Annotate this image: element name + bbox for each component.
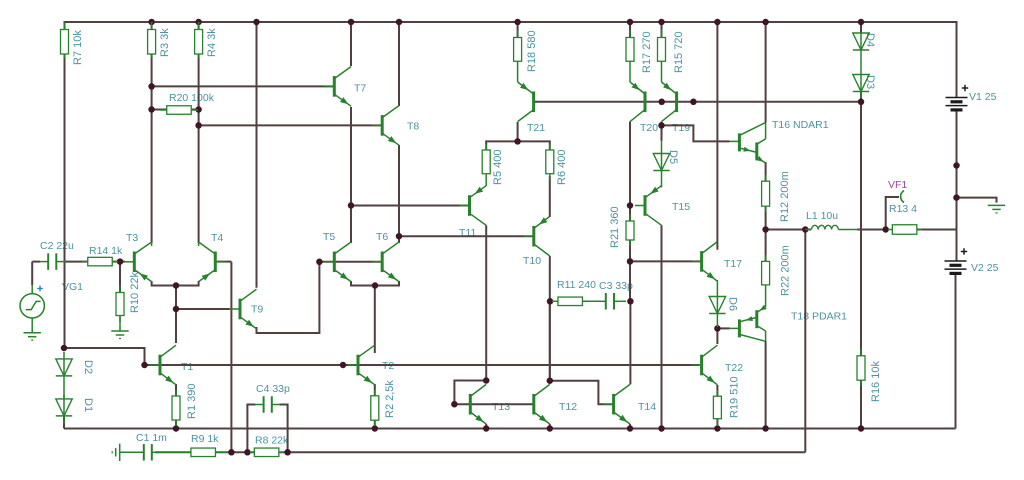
svg-text:T3: T3 <box>126 232 138 244</box>
pin T3 collector link <box>151 242 153 246</box>
svg-text:T4: T4 <box>211 232 223 244</box>
wire R4 top stub <box>198 22 200 30</box>
junction R16 / -V rail <box>858 425 865 432</box>
wire R13 right to V rail <box>917 229 957 231</box>
inductor L1 10u <box>805 225 858 229</box>
svg-text:R15 720: R15 720 <box>673 31 685 73</box>
junction R2 / -V rail <box>372 425 379 432</box>
source VG1 <box>20 285 44 333</box>
wire T20 collector down R21 column <box>629 122 631 221</box>
wire T9 emitter to T5 base <box>257 262 320 333</box>
wire R15 top stub <box>661 22 663 38</box>
wire T5/T6 emitter bus <box>351 281 399 286</box>
wire T3 base node down to R10 <box>119 262 121 293</box>
junction T9 base <box>173 306 180 313</box>
svg-text:T19: T19 <box>672 122 690 134</box>
junction R7 / D2 / T1 base <box>61 345 68 352</box>
svg-text:T20: T20 <box>640 122 658 134</box>
transistor T14 <box>604 384 630 424</box>
junction T16 collector / +V rail <box>762 19 769 26</box>
resistor R15 720 <box>658 30 666 82</box>
svg-text:T14: T14 <box>638 401 656 413</box>
svg-text:T12: T12 <box>559 401 577 413</box>
resistor R22 200m <box>762 255 770 307</box>
junction T11 collector / T13 <box>483 377 490 384</box>
wire R1 to rail <box>175 420 177 429</box>
wire R12 to output node <box>765 206 767 229</box>
wire C2 to R14 <box>64 261 87 263</box>
svg-text:R8 22k: R8 22k <box>255 435 289 447</box>
wire T5/T6 base tie <box>319 261 380 263</box>
wire T7 collector up to rail <box>350 22 352 66</box>
wire R21 bottom to T17 base node <box>629 240 631 301</box>
svg-text:T15: T15 <box>672 201 690 213</box>
wire T18 collectors down to rail <box>765 341 767 429</box>
wire T4 base to feedback column <box>217 261 232 263</box>
wire probe stub <box>886 197 899 230</box>
svg-text:R19 510: R19 510 <box>729 376 741 418</box>
wire V1 bottom down to V2 <box>956 111 958 261</box>
junction T8 emitter / T6 collector / T10 base <box>396 233 403 240</box>
junction R17 / +V rail <box>627 19 634 26</box>
wire bias base rail T21-T20-T19 to D3 node <box>534 101 861 103</box>
junction R4 / +V rail <box>195 19 202 26</box>
svg-text:D2: D2 <box>82 360 94 374</box>
svg-text:V1 25: V1 25 <box>969 91 997 103</box>
svg-text:D1: D1 <box>82 398 94 412</box>
junction T8 collector / +V rail <box>396 19 403 26</box>
junction T7 base / R3 column <box>148 83 155 90</box>
junction R8 / C4 right <box>284 449 291 456</box>
resistor R2 2,5k <box>371 390 379 426</box>
svg-text:C2 22u: C2 22u <box>40 240 74 252</box>
wire T8 base from R4 column <box>199 124 382 126</box>
capacitor C3 33p <box>598 293 626 310</box>
svg-text:R14 1k: R14 1k <box>89 245 123 257</box>
wire T7 emitter down to T11 base node <box>350 107 352 206</box>
wire feedback column down <box>230 262 232 453</box>
svg-text:R7 10k: R7 10k <box>72 30 84 65</box>
svg-text:L1 10u: L1 10u <box>806 210 838 222</box>
diode D4 <box>853 33 869 75</box>
wire T21 collector to R5/R6 node <box>517 122 519 141</box>
transistor T7 <box>324 67 351 107</box>
battery V2 25 <box>945 248 968 273</box>
wire T9 collector column <box>256 22 258 288</box>
transistor T12 <box>532 384 550 424</box>
wire mirror tie step to T16 base <box>662 125 730 141</box>
junction T3/T4 emitter tail <box>173 282 180 289</box>
junction T21 collector / R5 R6 <box>514 138 521 145</box>
wire T10 collector down <box>549 256 551 381</box>
svg-text:C3 33p: C3 33p <box>599 280 633 292</box>
transistor T9 <box>230 289 257 329</box>
diode D2 <box>56 352 72 399</box>
wire R4 column down to T4 collector <box>198 54 200 243</box>
wire T19 collector to mirror tie <box>661 122 663 126</box>
junction T5/T6 emitters / T2 collector <box>372 282 379 289</box>
wire output feedback drop <box>804 230 806 453</box>
transistor T20 <box>630 82 647 122</box>
transistor T17 <box>692 242 718 282</box>
wire top +V rail <box>65 21 957 23</box>
wire T8 emitter down to T10 base node <box>398 145 400 236</box>
svg-text:T18 PDAR1: T18 PDAR1 <box>791 311 847 323</box>
probe VF1 <box>901 191 904 203</box>
wire T12 emitter to rail <box>549 424 551 429</box>
wire R11 left node to T12 <box>549 301 551 380</box>
svg-text:R13 4: R13 4 <box>889 203 917 215</box>
junction R12 / R22 output <box>762 226 769 233</box>
wire D1 bottom corner <box>63 416 65 428</box>
resistor R13 4 <box>888 225 922 235</box>
wire R20 row right <box>191 109 198 111</box>
resistor R10 22k <box>116 286 124 322</box>
wire T15 collector down to rail <box>661 225 663 428</box>
junction T5 base <box>316 259 323 266</box>
transistor T18 PDAR1 <box>730 305 767 342</box>
wire R7 column down <box>64 54 66 348</box>
wire tail down to T9 base node <box>175 286 177 310</box>
svg-text:T21: T21 <box>527 122 545 134</box>
transistor T8 <box>372 106 399 146</box>
capacitor C2 22u <box>40 253 66 270</box>
resistor R1 390 <box>172 390 180 426</box>
resistor R5 400 <box>482 144 490 186</box>
wire C3/T14 column <box>629 301 631 384</box>
svg-text:T8: T8 <box>407 121 419 133</box>
resistor R7 10k <box>61 22 69 58</box>
wire ground branch right <box>957 198 997 203</box>
resistor R19 510 <box>713 390 721 426</box>
transistor T19 <box>662 82 679 122</box>
wire T3/T4 emitter bus <box>152 281 199 286</box>
wire D4-D3 column from rail <box>860 22 862 33</box>
wire T1 emitter to R1 <box>175 384 177 396</box>
ground VG1 <box>24 333 41 341</box>
capacitor C1 1m <box>120 444 162 461</box>
transistor T2 <box>348 345 375 385</box>
wire T22 collector up to D6 node <box>716 328 718 344</box>
svg-text:D5: D5 <box>667 150 679 164</box>
ground right rail <box>988 205 1005 213</box>
wire T13 tie to T11 column <box>454 381 486 405</box>
wire V2 bottom to -V rail corner <box>955 275 957 429</box>
svg-text:R5 400: R5 400 <box>492 150 504 185</box>
wire tail down to T1 collector <box>175 309 177 343</box>
junction R14 / T3 base / R10 <box>117 258 124 265</box>
junction R3 / +V rail <box>148 19 155 26</box>
wire R14 to T3 base node <box>113 261 125 263</box>
wire R18 top stub <box>517 22 519 38</box>
wire R17 top stub <box>629 22 631 38</box>
junction T7 collector / +V rail <box>348 19 355 26</box>
svg-text:R12 200m: R12 200m <box>779 171 791 222</box>
diode D5 <box>653 140 669 188</box>
svg-text:VF1: VF1 <box>888 179 907 191</box>
junction T15 base / R21 column <box>627 202 634 209</box>
wire D3 node down to R16 <box>860 102 862 356</box>
transistor T6 <box>372 242 399 282</box>
wire C4 left branch <box>247 405 255 453</box>
junction T12 emitter / -V rail <box>547 425 554 432</box>
wire output line to L1 <box>766 229 811 231</box>
wire T9 base <box>176 308 230 310</box>
capacitor C4 33p <box>255 396 280 413</box>
wire output node to R22 <box>765 230 767 262</box>
junction D3 / bias rail <box>858 99 865 106</box>
svg-text:V2 25: V2 25 <box>971 262 999 274</box>
wire T8 collector up to rail <box>398 22 400 106</box>
wire feedback line bottom <box>155 451 805 453</box>
junction D6 / T22 collector / T18 base <box>714 325 721 332</box>
junction bias rail A <box>658 99 665 106</box>
wire R16 bottom to rail <box>860 380 862 428</box>
wire T11 collector down <box>485 225 487 380</box>
junction R15 / +V rail <box>658 19 665 26</box>
wire R6 bottom to T10 emitter <box>549 176 551 217</box>
transistor T4 <box>199 242 226 282</box>
transistor T11 <box>460 186 487 226</box>
pin T4 collector link <box>198 242 200 246</box>
wire T22 emitter to R19 <box>716 385 718 396</box>
junction R19 / -V rail <box>714 425 721 432</box>
wire T16 emitter node to R12 <box>765 162 767 181</box>
junction R20 right <box>195 106 202 113</box>
junction T17 collector / +V rail <box>714 19 721 26</box>
transistor T3 <box>124 242 151 282</box>
junction L1 / feedback <box>802 226 809 233</box>
junction T7 emitter / T5 collector / T11 base <box>348 202 355 209</box>
svg-text:T7: T7 <box>354 83 366 95</box>
ground C1 <box>112 444 120 461</box>
wire input bias to T1 base <box>64 348 150 365</box>
wire R5 top corner <box>486 141 550 150</box>
junction bias rail B <box>690 99 697 106</box>
junction base line node <box>340 362 347 369</box>
wire T10 base <box>399 235 533 237</box>
svg-text:T17: T17 <box>724 258 742 270</box>
wire C4 right branch <box>280 405 288 453</box>
junction ground branch <box>953 194 960 201</box>
resistor R3 3k <box>148 22 156 58</box>
wire R3 column down to T3 collector <box>151 54 153 243</box>
diode D3 <box>853 75 869 99</box>
wire T12 collector step to T14 base <box>550 381 613 405</box>
resistor R11 240 <box>552 297 600 306</box>
svg-text:R11 240: R11 240 <box>557 279 596 291</box>
junction V1 minus column <box>953 162 960 169</box>
svg-text:R17 270: R17 270 <box>641 31 653 73</box>
svg-text:R16 10k: R16 10k <box>870 361 882 402</box>
wire T17 base <box>630 260 701 262</box>
junction R18 / +V rail <box>514 19 521 26</box>
transistor T1 <box>150 345 176 385</box>
transistor T5 <box>324 242 351 282</box>
wire R3 top stub <box>151 22 153 30</box>
junction C3 / R21 column <box>627 298 634 305</box>
junction R21 / T17 base <box>627 258 634 265</box>
svg-text:R21 360: R21 360 <box>609 206 621 248</box>
resistor R17 270 <box>626 30 634 82</box>
resistor R14 1k <box>82 257 118 266</box>
svg-text:T16 NDAR1: T16 NDAR1 <box>772 119 829 131</box>
svg-text:T5: T5 <box>323 231 335 243</box>
junction T9 collector / +V rail <box>253 19 260 26</box>
wire T11 base <box>351 205 469 207</box>
svg-text:R20 100k: R20 100k <box>169 92 215 104</box>
diode D6 <box>709 280 725 327</box>
wire T2 collector up to emitter bus <box>374 286 376 354</box>
junction R20 left <box>148 106 155 113</box>
svg-text:R10 22k: R10 22k <box>129 272 141 313</box>
transistor T21 <box>518 82 536 122</box>
svg-text:T13: T13 <box>492 401 510 413</box>
wire L1 to probe node <box>857 229 886 231</box>
svg-text:R3 3k: R3 3k <box>159 28 171 57</box>
resistor R21 360 <box>626 214 634 246</box>
svg-text:R2 2,5k: R2 2,5k <box>384 380 396 418</box>
svg-text:R1 390: R1 390 <box>186 384 198 419</box>
svg-text:C1 1m: C1 1m <box>136 432 167 444</box>
wire bottom -V rail <box>64 428 956 430</box>
resistor R20 100k <box>160 106 198 115</box>
transistor T13 <box>469 384 486 424</box>
svg-text:R22 200m: R22 200m <box>780 245 792 296</box>
wire long base line T1-T2-T22 <box>150 364 699 366</box>
svg-text:D6: D6 <box>727 297 739 311</box>
battery V1 25 <box>946 85 969 110</box>
svg-text:T6: T6 <box>376 231 388 243</box>
wire R2 to rail <box>374 420 376 428</box>
wire R20 row left <box>152 109 167 111</box>
resistor R4 3k <box>195 22 203 58</box>
wire D3 bottom to bias node <box>860 92 862 102</box>
wire T2 emitter to R2 <box>374 384 376 396</box>
transistor T22 <box>692 345 718 385</box>
svg-text:R6 400: R6 400 <box>556 150 568 185</box>
junction R9-R8 / C4 left <box>244 449 251 456</box>
junction L1 / R13 / probe <box>882 226 889 233</box>
resistor R16 10k <box>857 349 865 386</box>
junction T15 collector / -V rail <box>658 425 665 432</box>
junction T13 base tie <box>451 401 458 408</box>
junction T10 collector / R11 <box>547 298 554 305</box>
svg-text:R18 580: R18 580 <box>526 30 538 72</box>
transistor T10 <box>524 216 550 256</box>
transistor T15 <box>635 186 662 226</box>
wire T17 collector column from rail <box>716 22 718 250</box>
resistor R9 1k <box>160 448 228 457</box>
resistor R8 22k <box>250 448 284 457</box>
junction R1 / -V rail <box>173 425 180 432</box>
wire T16 collector column from rail <box>765 22 767 123</box>
wire T13 emitter to rail <box>485 424 487 429</box>
wire VG1 top lead <box>31 262 33 285</box>
junction R9 / feedback column <box>228 449 235 456</box>
wire T5 collector up <box>350 206 352 244</box>
wire C2 left lead corner <box>32 261 40 263</box>
junction T8 base / R4 column <box>195 122 202 128</box>
svg-text:R9 1k: R9 1k <box>191 433 219 445</box>
wire R19 to rail <box>716 419 718 429</box>
junction D4 / +V rail <box>858 19 865 26</box>
junction T1 base corner <box>141 362 148 369</box>
junction T19 collector tie <box>658 122 665 128</box>
svg-text:R4 3k: R4 3k <box>206 28 218 57</box>
resistor R18 580 <box>514 30 522 82</box>
svg-text:T22: T22 <box>725 362 743 374</box>
svg-text:T9: T9 <box>251 304 263 316</box>
transistor T16 NDAR1 <box>730 123 766 164</box>
junction T14 emitter / -V rail <box>627 425 634 432</box>
junction T10 collector / T12 / T14 base <box>547 377 554 384</box>
svg-text:C4 33p: C4 33p <box>256 383 290 395</box>
wire T13/T12 base line <box>454 403 532 405</box>
wire T6 collector up <box>398 236 400 243</box>
junction T18 collector / -V rail <box>762 425 769 432</box>
wire mirror tie down to D5 <box>661 125 663 141</box>
resistor R6 400 <box>546 144 554 180</box>
wire top rail left drop to R7 <box>64 21 66 30</box>
resistor R12 200m <box>762 175 770 212</box>
svg-text:T10: T10 <box>523 255 541 267</box>
diode D1 <box>56 395 72 424</box>
wire D6 node to T18 base <box>717 327 729 329</box>
ground R10 <box>111 316 128 339</box>
wire T7 base from R3 column <box>152 85 334 87</box>
junction T13 emitter / -V rail <box>483 425 490 432</box>
wire V1 top from rail corner <box>956 21 958 98</box>
wire T14 emitter to rail <box>629 424 631 429</box>
svg-text:T1: T1 <box>181 361 193 373</box>
